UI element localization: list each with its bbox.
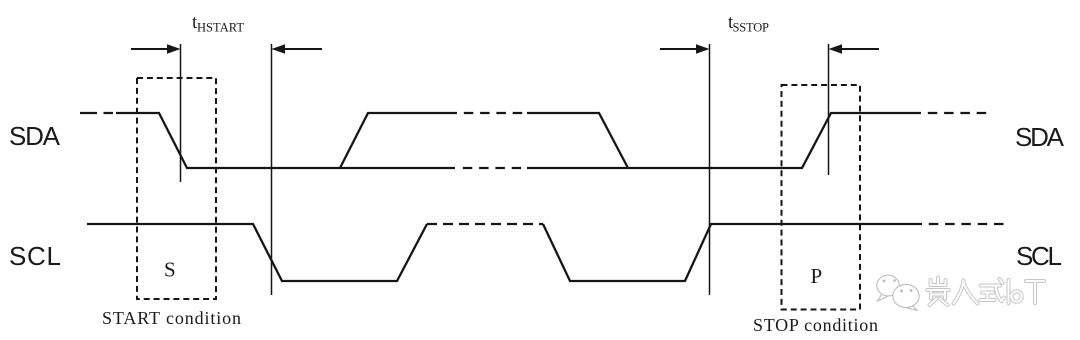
svg-text:S: S <box>164 258 176 282</box>
svg-text:START condition: START condition <box>102 308 241 328</box>
svg-text:STOP condition: STOP condition <box>753 315 878 335</box>
svg-text:P: P <box>811 264 823 288</box>
svg-text:HSTART: HSTART <box>197 21 244 35</box>
svg-text:SCL: SCL <box>1016 241 1062 271</box>
svg-text:SCL: SCL <box>9 241 61 271</box>
svg-text:SSTOP: SSTOP <box>733 21 770 35</box>
svg-text:SDA: SDA <box>9 121 61 151</box>
svg-text:SDA: SDA <box>1015 122 1065 152</box>
